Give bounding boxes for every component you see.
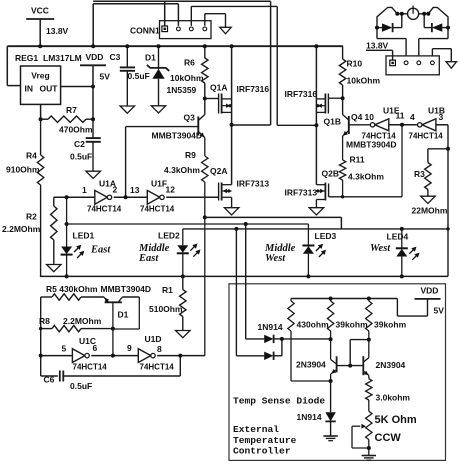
- wire U1E in to U1B out: [389, 124, 417, 126]
- node bus C diode tap: [234, 227, 238, 231]
- zener diode D1 1N5359: [158, 46, 160, 69]
- svg-text:Temp Sense Diode: Temp Sense Diode: [233, 396, 325, 407]
- node motor right b: [426, 12, 430, 16]
- svg-text:CONN1: CONN1: [130, 26, 160, 36]
- svg-text:Controller: Controller: [233, 445, 291, 456]
- wire diode feed upper: [245, 224, 247, 339]
- resistor 430ohm: [288, 301, 294, 331]
- wire CONN1 pin1 top: [93, 0, 270, 2]
- wire CONN1 feed vertical: [92, 4, 94, 47]
- node R9 bottom: [203, 215, 207, 219]
- svg-text:R8: R8: [39, 316, 50, 326]
- wire motor tent left: [377, 7, 397, 27]
- wire R11 to Q2B gate: [329, 196, 402, 198]
- svg-text:430ohm: 430ohm: [297, 320, 330, 330]
- ground CONN2: [446, 62, 457, 68]
- svg-text:Q2B: Q2B: [322, 169, 339, 179]
- node LED3 bottom: [306, 274, 310, 278]
- wire U1C input: [41, 355, 73, 357]
- svg-text:39kohm: 39kohm: [374, 320, 407, 330]
- svg-text:Q4: Q4: [351, 112, 363, 122]
- node rail 39k1: [329, 297, 333, 301]
- wire D1 column: [112, 329, 114, 356]
- svg-text:R4: R4: [26, 151, 37, 161]
- wire CONN1 pin3 to Q1B drain: [276, 6, 278, 125]
- svg-text:10kOhm: 10kOhm: [347, 76, 381, 86]
- ground C3: [120, 106, 135, 113]
- node bus B left: [65, 222, 69, 226]
- node DM2 anode: [446, 26, 450, 30]
- svg-text:1: 1: [82, 185, 87, 195]
- svg-text:13: 13: [130, 185, 140, 195]
- node osc R8 left: [39, 327, 42, 330]
- node OUT-VDD: [91, 85, 95, 89]
- wire U1A out: [114, 196, 148, 198]
- svg-text:IRF7316: IRF7316: [237, 84, 270, 94]
- node rail-Q1B: [314, 44, 318, 48]
- svg-text:MMBT3904D: MMBT3904D: [346, 140, 397, 150]
- node rail-VCC: [38, 44, 42, 48]
- node LED4 bottom: [400, 274, 404, 278]
- LED2 Middle East: [182, 229, 184, 245]
- inverter U1D 74HCT14: [138, 349, 151, 363]
- svg-text:470Ohm: 470Ohm: [59, 125, 93, 135]
- ground C2: [86, 171, 101, 178]
- svg-text:U1C: U1C: [79, 336, 96, 346]
- svg-text:MMBT3904D: MMBT3904D: [152, 131, 203, 141]
- diode DM1 flyback: [377, 27, 382, 29]
- wire Q2B source to ground: [315, 200, 317, 208]
- node motor left b: [400, 12, 404, 16]
- wire Q1A drain column: [231, 99, 233, 185]
- svg-text:VDD: VDD: [421, 286, 439, 296]
- diode 1N914 upper: [264, 335, 273, 343]
- svg-text:R9: R9: [185, 150, 196, 160]
- wire R9 column to U1D out: [204, 217, 206, 355]
- ground D1: [151, 106, 166, 113]
- wire VDD column to R7: [92, 87, 94, 120]
- ground R3: [421, 196, 436, 203]
- capacitor C6: [41, 375, 58, 377]
- node DM1 anode: [375, 26, 379, 30]
- wire CONN2 pin2 up: [405, 39, 407, 56]
- node motor left a: [395, 12, 399, 16]
- node 1N914 join: [280, 337, 284, 341]
- node mirror right collector: [367, 338, 371, 342]
- node osc U1C left: [39, 354, 43, 358]
- svg-text:East: East: [90, 245, 111, 256]
- svg-text:IN: IN: [25, 84, 34, 94]
- LED4 West: [401, 229, 403, 248]
- node U1E-U1B-LED4: [400, 123, 404, 127]
- ground pot earth: [362, 455, 376, 457]
- svg-text:C6: C6: [44, 375, 55, 385]
- node mirror emitter: [329, 379, 333, 383]
- svg-text:8: 8: [157, 344, 162, 354]
- wire Q2A source to ground: [231, 197, 233, 207]
- wire osc left rail: [40, 297, 42, 376]
- node R10 bottom: [341, 96, 345, 100]
- node R11 gate row: [341, 195, 344, 198]
- node Q1A-CONN1: [230, 123, 234, 127]
- wire Q1B column: [315, 46, 317, 185]
- node U1B-R3: [446, 147, 450, 151]
- svg-text:VDD: VDD: [86, 52, 104, 62]
- svg-text:Temperature: Temperature: [233, 435, 297, 446]
- svg-text:13.8V: 13.8V: [366, 41, 389, 51]
- node U1C-U1D-D1: [111, 354, 115, 358]
- wire LED bottom bus: [40, 275, 448, 277]
- wire 13.8V rail: [7, 45, 343, 47]
- svg-text:5V: 5V: [100, 72, 111, 82]
- svg-text:R6: R6: [184, 58, 195, 68]
- svg-text:4.3kOhm: 4.3kOhm: [164, 165, 200, 175]
- svg-text:2N3904: 2N3904: [296, 360, 326, 370]
- svg-text:74HCT14: 74HCT14: [87, 205, 122, 214]
- ground R2: [47, 265, 62, 272]
- inverter U1B 74HCT14: [422, 119, 436, 131]
- svg-text:5V: 5V: [434, 306, 445, 316]
- resistor R5: [41, 296, 52, 298]
- node pot wiper bottom: [367, 446, 371, 450]
- wire U1C out to U1D in: [91, 355, 138, 357]
- svg-text:C2: C2: [74, 139, 85, 149]
- svg-text:R7: R7: [66, 105, 77, 115]
- svg-text:10: 10: [365, 112, 375, 122]
- svg-text:2N3904: 2N3904: [376, 360, 406, 370]
- diode DM2 flyback: [423, 14, 425, 28]
- transistor Q2A: [218, 183, 220, 201]
- svg-text:10kOhm: 10kOhm: [170, 73, 204, 83]
- svg-text:U1A: U1A: [99, 179, 116, 189]
- wire CONN1 pin3 top: [190, 6, 192, 25]
- svg-text:D1: D1: [118, 310, 129, 320]
- svg-text:3: 3: [439, 112, 444, 122]
- node R7 right: [91, 117, 95, 121]
- svg-text:R10: R10: [347, 59, 363, 69]
- ground temp diode earth: [323, 435, 337, 437]
- node Q1B-CONN1: [314, 123, 318, 127]
- svg-text:West: West: [370, 243, 391, 254]
- svg-text:C3: C3: [110, 52, 121, 62]
- node LED2 bottom: [181, 274, 185, 278]
- svg-text:2.2MOhm: 2.2MOhm: [2, 224, 41, 234]
- svg-text:9: 9: [127, 343, 132, 353]
- ground Q2B: [309, 208, 324, 215]
- capacitor C3: [126, 46, 128, 67]
- wire Q1A source column: [231, 46, 233, 99]
- svg-text:0.5uF: 0.5uF: [128, 71, 150, 81]
- svg-text:U1D: U1D: [145, 334, 162, 344]
- wire U1E junction down: [401, 125, 403, 197]
- wire Q1B gate: [328, 97, 342, 99]
- ground R1: [176, 331, 191, 338]
- regulator REG1 Vreg box: [21, 66, 61, 104]
- temperature controller box: [229, 284, 446, 461]
- node bus B diode tap: [244, 222, 248, 226]
- svg-text:Q1B: Q1B: [324, 117, 341, 127]
- wire CONN2 pin3 up: [418, 39, 420, 56]
- svg-text:22MOhm: 22MOhm: [412, 206, 448, 216]
- svg-text:East: East: [138, 253, 159, 264]
- svg-text:MMBT3904D: MMBT3904D: [101, 284, 152, 294]
- wire bus A: [205, 216, 342, 218]
- inverter U1E 74HCT14: [375, 119, 389, 131]
- svg-text:74HCT14: 74HCT14: [140, 205, 175, 214]
- node LED1 bottom: [65, 274, 69, 278]
- resistor 39kohm first: [327, 301, 333, 331]
- node motor right a: [422, 12, 426, 16]
- svg-text:Vreg: Vreg: [31, 71, 49, 81]
- resistor 39kohm second: [366, 301, 372, 331]
- svg-text:LM317LM: LM317LM: [43, 53, 82, 63]
- svg-text:39kohm: 39kohm: [336, 320, 369, 330]
- wire U1F out to Q2A gate: [166, 196, 218, 198]
- diode 1N914 lower: [264, 352, 273, 360]
- resistor R1: [182, 276, 184, 289]
- svg-text:Q2A: Q2A: [210, 166, 227, 176]
- svg-text:5K Ohm: 5K Ohm: [375, 414, 417, 426]
- svg-text:Q1A: Q1A: [210, 83, 227, 93]
- node rail-CONN1: [91, 44, 95, 48]
- svg-text:Q3: Q3: [184, 113, 196, 123]
- wire diodes to mirror: [282, 338, 331, 340]
- svg-text:LED3: LED3: [315, 231, 337, 241]
- svg-text:LED2: LED2: [158, 231, 180, 241]
- capacitor C2: [92, 119, 94, 138]
- svg-text:VCC: VCC: [31, 6, 49, 16]
- resistor 3.0kohm: [366, 379, 372, 400]
- svg-text:IRF7313: IRF7313: [237, 179, 270, 189]
- node rail-D1: [157, 44, 161, 48]
- svg-text:R3: R3: [414, 169, 425, 179]
- svg-text:74HCT14: 74HCT14: [409, 132, 444, 141]
- wire temp 5V rail: [291, 298, 397, 300]
- LED1 East: [66, 197, 68, 246]
- node rail-C3: [125, 44, 129, 48]
- wire U1D out: [157, 355, 205, 357]
- inverter U1C 74HCT14: [72, 349, 85, 363]
- transistor Q1A: [205, 98, 218, 100]
- svg-text:External: External: [233, 424, 279, 435]
- inverter U1F 74HCT14: [147, 190, 160, 204]
- svg-text:R11: R11: [350, 155, 365, 165]
- svg-text:CCW: CCW: [375, 432, 402, 444]
- svg-text:3.0kohm: 3.0kohm: [376, 393, 411, 403]
- resistor R11: [339, 160, 345, 180]
- wire REG1 OUT: [61, 86, 93, 88]
- svg-text:510Ohm: 510Ohm: [149, 304, 183, 314]
- node rail-Q1A: [230, 44, 234, 48]
- svg-text:1N914: 1N914: [297, 412, 322, 422]
- wire mirror cross couple: [349, 340, 351, 366]
- svg-text:13.8V: 13.8V: [46, 26, 69, 36]
- svg-text:74HCT14: 74HCT14: [140, 363, 175, 372]
- connector CONN2: [386, 56, 439, 75]
- svg-text:U1F: U1F: [151, 179, 167, 189]
- svg-text:74HCT14: 74HCT14: [73, 363, 108, 372]
- wire U1B input: [436, 124, 448, 126]
- wire motor tent right: [428, 7, 448, 27]
- svg-text:R5 430kOhm: R5 430kOhm: [46, 284, 98, 294]
- svg-text:910Ohm: 910Ohm: [6, 165, 40, 175]
- node R7 left: [39, 117, 43, 121]
- wire Vreg bottom: [40, 104, 42, 119]
- wire CONN1 pin1 to Q1A drain: [270, 1, 272, 125]
- node U1A out branch: [124, 195, 128, 199]
- svg-text:5: 5: [62, 344, 67, 354]
- wire bus B: [67, 223, 309, 225]
- svg-text:74HCT14: 74HCT14: [362, 132, 397, 141]
- wire motor leads: [397, 13, 408, 15]
- resistor R3: [428, 148, 448, 150]
- wire R4 to bottom bus: [40, 185, 42, 276]
- svg-text:0.5uF: 0.5uF: [70, 152, 92, 162]
- svg-text:LED4: LED4: [387, 232, 409, 242]
- svg-text:OUT: OUT: [40, 84, 59, 94]
- resistor R6: [204, 46, 206, 58]
- resistor R10: [342, 46, 344, 59]
- svg-text:IRF7316: IRF7316: [285, 89, 318, 99]
- svg-text:2.2MOhm: 2.2MOhm: [63, 316, 102, 326]
- node rail 39k2: [367, 297, 371, 301]
- svg-text:11: 11: [396, 111, 405, 121]
- node U1B-busC: [446, 227, 449, 230]
- node mirror left collector: [329, 337, 333, 341]
- transistor Q2B: [328, 184, 330, 197]
- svg-text:4: 4: [410, 112, 415, 122]
- wire Q4 base: [349, 124, 371, 126]
- resistor R9: [202, 156, 208, 182]
- svg-text:0.5uF: 0.5uF: [70, 381, 92, 391]
- wire REG1 input drop: [6, 46, 8, 85]
- wire CONN1 pin4 to ground: [204, 14, 206, 26]
- wire U1A out to Q3 base: [125, 127, 127, 198]
- LED3 Middle West: [307, 229, 309, 246]
- ground Q2A: [224, 208, 239, 215]
- motor M1: [408, 8, 419, 19]
- node U1D out C6 tap: [178, 354, 182, 358]
- inverter U1A 74HCT14: [95, 190, 108, 204]
- wire CONN2 pin4 to ground: [431, 49, 433, 56]
- wire CONN1 pin2 top: [93, 3, 178, 5]
- wire bus C: [183, 228, 448, 230]
- svg-text:REG1: REG1: [15, 53, 38, 63]
- diode 1N914 temp sense: [330, 381, 332, 412]
- resistor R8: [41, 328, 52, 330]
- potentiometer 5K Ohm: [366, 411, 372, 439]
- ground CONN1 pin4: [220, 27, 232, 34]
- node bus C LED4: [400, 227, 404, 231]
- wire R2 to U1A input: [54, 196, 95, 198]
- node U1A input-LED1: [65, 195, 69, 199]
- svg-text:LED1: LED1: [73, 231, 95, 241]
- node mirror bases: [348, 364, 352, 368]
- svg-text:4.3kOhm: 4.3kOhm: [348, 172, 384, 182]
- wire 430ohm to emitter: [291, 380, 331, 382]
- svg-text:R1: R1: [162, 285, 173, 295]
- transistor Q1B: [327, 94, 329, 114]
- resistor R4: [40, 119, 42, 155]
- node R6 bottom: [203, 97, 207, 101]
- resistor R7: [41, 118, 48, 120]
- node rail-R6: [203, 44, 207, 48]
- svg-text:R2: R2: [26, 212, 37, 222]
- resistor R2: [53, 197, 55, 206]
- svg-text:D1: D1: [145, 53, 156, 63]
- svg-text:IRF7313: IRF7313: [285, 188, 318, 198]
- svg-text:1N914: 1N914: [258, 322, 283, 332]
- node D1 base: [111, 327, 115, 331]
- svg-text:West: West: [265, 253, 286, 264]
- wire diode feed lower: [235, 229, 237, 356]
- svg-text:1N5359: 1N5359: [167, 85, 197, 95]
